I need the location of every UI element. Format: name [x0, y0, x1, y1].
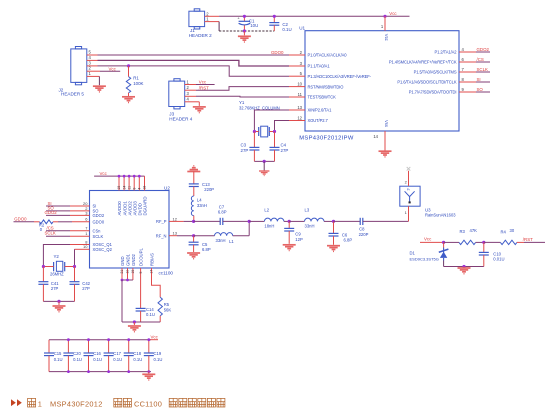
U1 pin 4 net GDO2 — [459, 51, 476, 53]
U2 pin 9 AVDD3 — [133, 176, 135, 190]
svg-text:RST/NMI/SBWTDIO: RST/NMI/SBWTDIO — [308, 84, 344, 89]
U2 pin 17 RBIAS with resistor R5 56K — [152, 268, 161, 297]
junction balun node — [248, 220, 251, 223]
svg-text:10: 10 — [297, 82, 302, 87]
svg-text:ESD9C3.3ST5G: ESD9C3.3ST5G — [410, 257, 439, 262]
svg-text:0.1U: 0.1U — [54, 357, 63, 362]
U2 pin 6 GDO0 with resistor R2 — [14, 221, 35, 223]
caption figure 1 — [11, 399, 16, 406]
svg-text:0.1U: 0.1U — [282, 27, 291, 32]
svg-text:C17: C17 — [113, 351, 121, 356]
svg-text:C20: C20 — [73, 351, 81, 356]
svg-text:GDO2: GDO2 — [93, 213, 105, 218]
svg-text:12P: 12P — [295, 237, 303, 242]
svg-text:15: 15 — [117, 186, 121, 190]
svg-text:12: 12 — [297, 116, 302, 121]
ground at J3 pin4 — [193, 106, 206, 108]
resistor R3 47K — [444, 241, 459, 243]
wire GND pins tie — [122, 279, 133, 281]
junction RF_N node — [192, 234, 195, 237]
junction Y1 right — [273, 130, 276, 133]
svg-text:GDO0: GDO0 — [93, 219, 105, 224]
U2 pin 14 AVDD1 — [123, 176, 125, 190]
connector J2 HEADER 5 — [71, 49, 87, 83]
svg-text:19: 19 — [131, 270, 135, 274]
svg-text:U3: U3 — [425, 207, 431, 212]
junction R1 on J2 pin3 wire — [127, 64, 130, 67]
svg-text:Vcc: Vcc — [109, 66, 117, 71]
connector J1 HEADER 2 — [189, 11, 205, 26]
svg-text:U2: U2 — [164, 185, 170, 190]
net label /RST right — [524, 241, 545, 243]
capacitor C17 0.1U — [108, 340, 110, 353]
rf chip U2 CC1100 — [90, 191, 170, 269]
svg-text:P1.6/TA1/A6/SDO/SCL/TDI/TCLK: P1.6/TA1/A6/SDO/SCL/TDI/TCLK — [397, 80, 456, 85]
svg-text:XOSC_Q2: XOSC_Q2 — [93, 247, 113, 252]
svg-text:HEADER 2: HEADER 2 — [189, 33, 212, 38]
wire J2 pin5 to U1 pin2 (net GDO0) — [98, 54, 290, 56]
U1 pin 7 net SCLK — [459, 71, 476, 73]
ground below C5 — [187, 252, 200, 254]
U2 pin 13 RF_N — [169, 235, 177, 237]
svg-text:0.1U: 0.1U — [154, 357, 163, 362]
wire decoupling bottom rail — [49, 371, 151, 373]
wire J1 pin1 to cap bottom rail — [218, 22, 220, 31]
power label Vcc decoupling rail — [149, 339, 158, 341]
svg-text:Vcc: Vcc — [389, 11, 397, 16]
ground below Y1 caps — [263, 161, 265, 170]
svg-text:RF_N: RF_N — [156, 233, 167, 238]
svg-text:GND2: GND2 — [131, 253, 136, 266]
svg-text:DCOUPL: DCOUPL — [139, 247, 144, 266]
capacitor C16 0.1U — [88, 340, 90, 353]
svg-text:RainSunAN1603: RainSunAN1603 — [425, 213, 456, 218]
ground below C1 — [243, 31, 245, 35]
junction Y2 left — [42, 265, 45, 268]
capacitor C5 6.8P shunt — [193, 236, 195, 243]
svg-text:Vcc: Vcc — [151, 335, 159, 340]
capacitor C2 0.1U — [273, 16, 275, 22]
svg-text:220P: 220P — [204, 187, 214, 192]
junction at U1 pin1 — [383, 15, 386, 18]
svg-text:HEADER 5: HEADER 5 — [61, 92, 84, 97]
svg-text:6.8P: 6.8P — [344, 238, 353, 243]
svg-text:0.1U: 0.1U — [113, 357, 122, 362]
svg-text:Y1: Y1 — [239, 100, 245, 105]
U2 pin 3 GDO2 — [70, 214, 90, 216]
svg-text:Pr: Pr — [407, 188, 410, 192]
svg-text:6.8P: 6.8P — [202, 247, 211, 252]
U2 pin 8 XOSC_Q1 — [70, 244, 90, 246]
svg-text:GDO2: GDO2 — [477, 47, 490, 52]
svg-text:9: 9 — [132, 188, 136, 190]
capacitor C1 10U polarized — [243, 16, 245, 21]
svg-text:33nH: 33nH — [216, 238, 226, 243]
capacitor C7 6.8P series — [194, 220, 221, 222]
wire Vcc rail above U2 — [94, 175, 144, 177]
wire Y2 row — [43, 266, 53, 268]
U1 pin 5 P1.3 — [289, 75, 305, 77]
svg-text:100K: 100K — [133, 81, 143, 86]
capacitor C19 0.1U — [148, 340, 150, 353]
svg-text:DGUARD: DGUARD — [143, 196, 148, 215]
mcu U1 MSP430F2012IPW — [305, 31, 459, 131]
U1 pin 2 P1.0 — [289, 54, 305, 56]
svg-text:SI: SI — [477, 77, 481, 82]
wire RF_N up to RF_P after C7 — [248, 221, 250, 235]
wire decoupling top rail — [49, 339, 151, 341]
U2 pin 19 GND1 — [127, 268, 129, 280]
svg-text:XIN/P2.6/TA1: XIN/P2.6/TA1 — [308, 108, 333, 113]
U2 pin 20 SI — [70, 205, 90, 207]
svg-text:GDO0: GDO0 — [271, 50, 284, 55]
svg-text:0.1U: 0.1U — [133, 357, 142, 362]
junction C6 node — [332, 220, 335, 223]
svg-text:P1.7/A7/SDI/SDA/TDO/TDI: P1.7/A7/SDI/SDA/TDO/TDI — [409, 90, 457, 95]
U2 pin 10 XOSC_Q2 — [75, 248, 90, 250]
capacitor C6 6.8P shunt — [333, 221, 335, 233]
svg-text:C14: C14 — [146, 307, 154, 312]
svg-text:47K: 47K — [470, 228, 478, 233]
svg-text:10: 10 — [126, 270, 130, 274]
svg-text:10U: 10U — [250, 23, 258, 28]
svg-text:18: 18 — [143, 186, 147, 190]
junction Y2 ground — [57, 300, 60, 303]
ground below U1 — [379, 150, 392, 152]
ground below U2 — [133, 322, 135, 325]
U2 pin 15 AVDD0 — [118, 176, 120, 190]
svg-text:L3: L3 — [305, 208, 310, 213]
svg-text:P1.0/TACLK/ACLK/A0: P1.0/TACLK/ACLK/A0 — [308, 53, 348, 58]
wire Vcc top rail — [219, 15, 409, 17]
svg-text:TEST/SBWTCK: TEST/SBWTCK — [308, 95, 337, 100]
svg-text:D1: D1 — [410, 250, 416, 255]
wire reset ground rail — [444, 266, 484, 268]
U2 pin 7 CSn — [70, 230, 90, 232]
svg-text:C16: C16 — [93, 351, 101, 356]
U1 pin 3 P1.1 — [289, 65, 305, 67]
resistor R1 100K — [128, 66, 130, 77]
svg-text:Y2: Y2 — [54, 254, 60, 259]
svg-text:L4: L4 — [197, 198, 202, 203]
wire J2 pin4 to U1 pin3 — [98, 60, 290, 66]
pin 14 Vss of U1 — [384, 131, 386, 151]
wire J3 pin2 to U1 pin10 — [196, 87, 289, 91]
capacitor C18 0.1U — [128, 340, 130, 353]
U2 pin 5 DCOUPL with capacitor C14 — [140, 268, 142, 308]
svg-text:27P: 27P — [51, 286, 59, 291]
svg-text:GND: GND — [120, 256, 125, 266]
capacitor C3 27P — [253, 132, 255, 148]
ground below R1 — [122, 96, 135, 98]
svg-text:33nH: 33nH — [197, 203, 207, 208]
pin 1 Vcc of U1 — [384, 16, 386, 30]
svg-text:R1: R1 — [133, 75, 139, 80]
antenna U3 RainSunAN1603 — [400, 186, 420, 206]
svg-text:SCLK: SCLK — [93, 234, 104, 239]
svg-text:R4: R4 — [501, 229, 507, 234]
svg-text:1: 1 — [38, 399, 42, 408]
antenna pin 1 wire — [408, 206, 410, 221]
svg-text:0.1U: 0.1U — [93, 357, 102, 362]
U2 pin 12 RF_P — [169, 220, 184, 222]
capacitor C10 0.01U — [483, 242, 485, 252]
resistor R4 30 — [484, 241, 501, 243]
inductor L2 18nH — [249, 220, 264, 222]
svg-text:C4: C4 — [281, 143, 287, 148]
wire J3 pin3 to U1 pin11 — [196, 95, 289, 98]
svg-text:Vcc: Vcc — [100, 171, 108, 176]
U2 pin 2 SO — [70, 210, 90, 212]
junction reset ground — [462, 265, 465, 268]
svg-text:P1.5/TA0/A5/SCLK/TMS: P1.5/TA0/A5/SCLK/TMS — [414, 70, 457, 75]
svg-text:Vss: Vss — [384, 120, 389, 127]
svg-text:cc1100: cc1100 — [159, 271, 174, 276]
svg-text:11: 11 — [298, 92, 303, 97]
svg-text:C19: C19 — [154, 351, 162, 356]
svg-text:P1.3/ADC10CLK/A3/VREF-/VeREF-: P1.3/ADC10CLK/A3/VREF-/VeREF- — [308, 74, 372, 79]
svg-text:GND1: GND1 — [126, 253, 131, 266]
svg-text:0.1U: 0.1U — [73, 357, 82, 362]
svg-text:P1.2/TA1/A2: P1.2/TA1/A2 — [434, 50, 457, 55]
capacitor C4 27P — [274, 132, 276, 148]
svg-text:R3: R3 — [460, 229, 466, 234]
svg-text:MSP430F2012IPW: MSP430F2012IPW — [299, 135, 354, 141]
svg-text:12: 12 — [173, 216, 178, 221]
wire J2 pin3 to U1 pin5 — [98, 66, 290, 76]
svg-text:0.01U: 0.01U — [493, 257, 504, 262]
wire XOUT from U1 pin12 to Y1 — [275, 121, 290, 132]
ground below C6 — [327, 245, 340, 247]
svg-text:P1.1/TA0/A1: P1.1/TA0/A1 — [308, 64, 331, 69]
wire U2 ground rail — [122, 321, 160, 323]
svg-text:11: 11 — [127, 186, 131, 190]
svg-text:U1: U1 — [299, 25, 305, 30]
svg-text:CSn: CSn — [93, 229, 102, 234]
svg-text:/CS: /CS — [47, 225, 54, 230]
diode D1 ESD9C3.3ST5G — [443, 242, 445, 247]
junction Y2 right — [73, 265, 76, 268]
U2 pin 18 DGUARD — [144, 176, 146, 190]
U1 pin 10 RST — [289, 86, 305, 88]
capacitor C20 0.1U — [67, 340, 69, 353]
svg-text:220P: 220P — [359, 232, 369, 237]
svg-text:RBIAS: RBIAS — [150, 253, 155, 266]
svg-text:L2: L2 — [264, 208, 269, 213]
capacitor C15 0.1U — [48, 340, 50, 353]
svg-text:4: 4 — [138, 188, 142, 190]
svg-text:21: 21 — [120, 270, 124, 274]
svg-text:18nH: 18nH — [264, 224, 274, 229]
U1 pin 8 net SI — [459, 81, 476, 83]
svg-text:14: 14 — [373, 134, 378, 139]
svg-text:C18: C18 — [133, 351, 141, 356]
U2 pin GND2 — [132, 268, 134, 280]
U2 pin 16 GND — [121, 268, 123, 280]
svg-text:SO: SO — [477, 87, 484, 92]
svg-text:27P: 27P — [82, 286, 90, 291]
svg-text:/RST: /RST — [523, 237, 533, 242]
junction D1 node — [442, 241, 445, 244]
junction C9 node — [288, 220, 291, 223]
U2 pin 1 SCLK — [70, 235, 90, 237]
svg-text:MSP430F2012: MSP430F2012 — [50, 399, 103, 408]
svg-text:14: 14 — [122, 186, 126, 190]
svg-text:RF_P: RF_P — [156, 219, 167, 224]
svg-text:27P: 27P — [281, 148, 289, 153]
svg-text:C10: C10 — [493, 251, 501, 256]
svg-text:30: 30 — [510, 228, 515, 233]
svg-text:5: 5 — [139, 272, 143, 274]
svg-text:CC1100: CC1100 — [134, 399, 162, 408]
svg-text:56K: 56K — [164, 308, 172, 313]
svg-text:10: 10 — [83, 244, 88, 249]
svg-text:C3: C3 — [241, 143, 247, 148]
inverted ground above C13 — [187, 171, 200, 173]
inductor L4 33nH — [191, 196, 193, 216]
U1 pin 11 TEST — [289, 96, 305, 98]
svg-text:L1: L1 — [229, 239, 234, 244]
svg-text:GDO2: GDO2 — [45, 210, 58, 215]
svg-text:27P: 27P — [241, 148, 249, 153]
svg-text:SCLK: SCLK — [45, 231, 56, 236]
svg-text:13: 13 — [297, 105, 302, 110]
svg-text:6.8P: 6.8P — [218, 210, 227, 215]
U1 pin 12 XOUT — [289, 120, 305, 122]
capacitor C41 27P — [42, 267, 44, 282]
wire XIN from U1 pin13 to Y1 — [254, 110, 289, 132]
wire Y2 ground rail — [43, 300, 74, 302]
wire J2 pin1 to ground — [98, 76, 100, 85]
ground at J2 pin1 — [93, 85, 106, 87]
wire Y1 caps to ground rail — [254, 160, 274, 162]
svg-text:HEADER 4: HEADER 4 — [169, 116, 192, 121]
ground below C9 — [283, 244, 296, 246]
U2 pin 4 DVDD — [138, 176, 140, 190]
junction RF_P node — [192, 220, 195, 223]
svg-text:C15: C15 — [54, 351, 62, 356]
svg-text:0.1U: 0.1U — [146, 312, 155, 317]
svg-text:13: 13 — [173, 231, 178, 236]
svg-text:Vcc: Vcc — [384, 34, 389, 41]
inductor L3 33nH — [289, 220, 304, 222]
svg-text:26MHZ: 26MHZ — [50, 271, 64, 276]
capacitor C9 12P shunt — [288, 221, 290, 228]
svg-text:XOUT/P2.7: XOUT/P2.7 — [308, 118, 329, 123]
U1 pin 9 net SO — [459, 91, 476, 93]
U1 pin 6 net /CS — [459, 61, 476, 63]
svg-text:Vcc: Vcc — [199, 80, 207, 85]
junction Y1 ground — [263, 160, 266, 163]
svg-text:SCLK: SCLK — [477, 67, 489, 72]
junction Y1 left — [253, 130, 256, 133]
capacitor C42 27P — [74, 267, 76, 282]
wire GND down to rail — [121, 280, 123, 322]
ground below Y2 caps — [58, 301, 60, 305]
svg-text:Vcc: Vcc — [424, 237, 432, 242]
ground decoupling rail — [147, 370, 150, 373]
antenna pin 2 no-connect — [408, 171, 410, 186]
inductor L1 33nH series on RF_N — [194, 235, 215, 237]
svg-text:17: 17 — [150, 270, 154, 274]
svg-text:33nH: 33nH — [305, 224, 315, 229]
connector J3 HEADER 4 — [169, 81, 185, 106]
junction C10 node — [482, 241, 485, 244]
U2 pin 11 AVDD2 — [128, 176, 130, 190]
svg-text:/CS: /CS — [477, 57, 484, 62]
svg-text:R5: R5 — [164, 302, 170, 307]
junction U2 ground rail — [133, 320, 136, 323]
U1 pin 13 XIN — [289, 109, 305, 111]
svg-text:P1.4/SMCLK/A4/VREF+/VeREF+/TCK: P1.4/SMCLK/A4/VREF+/VeREF+/TCK — [389, 60, 457, 65]
ground below reset circuit — [463, 267, 465, 268]
svg-text:GDO0: GDO0 — [14, 216, 27, 221]
wire J3 pin4 to ground — [198, 102, 200, 106]
capacitor C8 220P series — [334, 220, 361, 222]
capacitor C13 220P — [189, 183, 199, 185]
